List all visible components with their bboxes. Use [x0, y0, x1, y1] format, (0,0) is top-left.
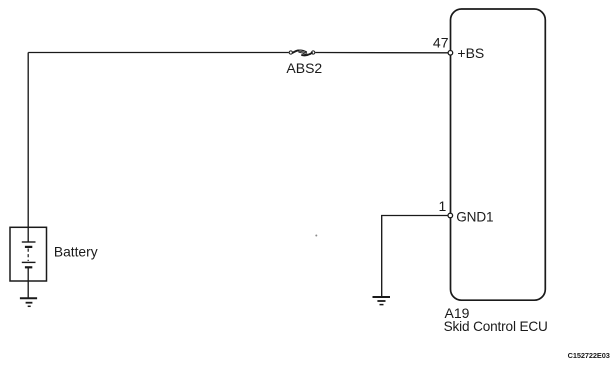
- wire: battery bottom lead down to ground: [27, 268, 29, 298]
- battery cell plate long (top): [22, 241, 36, 243]
- pin 1 terminal circle GND1: [448, 213, 453, 218]
- battery internal top lead wire: [27, 227, 29, 241]
- battery B1 box: [10, 227, 47, 281]
- wire: top horizontal from battery corner to fuse ABS2: [28, 52, 289, 54]
- svg-text:1: 1: [439, 198, 447, 214]
- ground symbol (battery): [20, 298, 37, 306]
- wire: GND1 to left then down to ground: [382, 216, 448, 297]
- battery cell plate short thick (bottom): [25, 266, 32, 268]
- battery cell plate long (bottom): [22, 261, 36, 263]
- svg-text:C152722E03: C152722E03: [568, 351, 610, 360]
- svg-text:GND1: GND1: [456, 209, 493, 224]
- fuse ABS2 right terminal circle: [312, 51, 315, 54]
- wire: top horizontal from fuse ABS2 to ECU pin 47: [315, 52, 448, 54]
- svg-text:+BS: +BS: [457, 45, 484, 61]
- battery cell plate short thick (top): [25, 246, 32, 248]
- svg-text:ABS2: ABS2: [286, 60, 322, 76]
- svg-text:Skid Control ECU: Skid Control ECU: [444, 319, 548, 334]
- svg-text:Battery: Battery: [54, 245, 98, 260]
- scan speck artifact: [315, 235, 317, 237]
- svg-text:47: 47: [433, 35, 449, 51]
- fuse ABS2 left terminal circle: [289, 51, 292, 54]
- pin 47 terminal circle +BS: [448, 51, 453, 56]
- wire: left vertical from corner down to battery: [27, 53, 29, 228]
- ground symbol (ECU GND1): [373, 297, 391, 305]
- battery dashed link: [27, 249, 29, 262]
- fuse ABS2 element squiggle: [293, 50, 312, 55]
- ECU box A19: [451, 9, 546, 300]
